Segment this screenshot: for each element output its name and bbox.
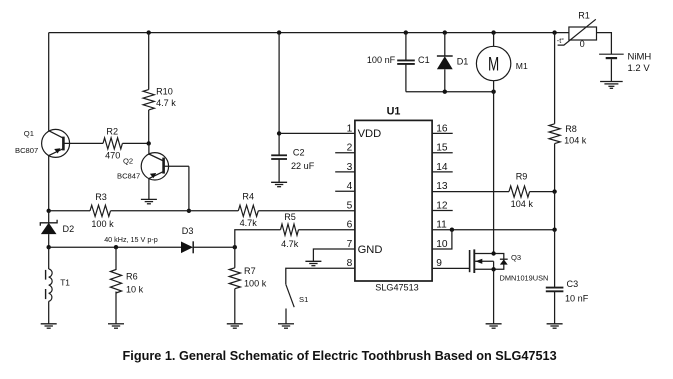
svg-text:9: 9 <box>436 258 442 269</box>
svg-text:6: 6 <box>347 220 353 231</box>
svg-text:Q2: Q2 <box>123 157 133 166</box>
wire pin 8 to switch S1 <box>286 268 355 284</box>
svg-text:C3: C3 <box>567 279 579 289</box>
svg-text:11: 11 <box>436 220 447 231</box>
svg-text:R4: R4 <box>242 192 254 202</box>
wire bottom of C1/D1/M1 <box>406 91 494 93</box>
resistor R6 <box>110 247 121 324</box>
svg-text:C1: C1 <box>418 55 430 65</box>
pin 15 stub <box>432 152 453 154</box>
resistor R8 <box>549 33 560 192</box>
svg-text:4.7k: 4.7k <box>281 239 299 249</box>
svg-text:1.2 V: 1.2 V <box>628 63 651 74</box>
diode D2 zener <box>40 211 57 247</box>
wire pin 9 to Q3 gate <box>432 267 470 269</box>
svg-text:10 k: 10 k <box>126 284 144 294</box>
ground Q2 <box>141 199 157 203</box>
ground S1 <box>278 324 294 328</box>
ground Q3 <box>486 324 502 328</box>
svg-text:S1: S1 <box>299 295 308 304</box>
node junction D3 / R5 / R7 <box>233 245 237 249</box>
svg-text:100 k: 100 k <box>244 279 267 289</box>
resistor R5 <box>281 224 299 235</box>
pin 14 stub <box>432 171 453 173</box>
resistor R7 <box>229 247 240 324</box>
wire R3 to R4 <box>111 210 239 212</box>
svg-text:15: 15 <box>436 143 448 154</box>
svg-text:R7: R7 <box>244 266 256 276</box>
svg-text:GND: GND <box>358 244 383 256</box>
wire pin 10 branch <box>432 230 452 249</box>
svg-text:16: 16 <box>436 123 448 134</box>
svg-text:470: 470 <box>105 150 120 160</box>
battery NiMH 1.2V <box>599 54 624 81</box>
svg-text:R3: R3 <box>95 192 107 202</box>
svg-text:104 k: 104 k <box>511 199 534 209</box>
svg-text:D2: D2 <box>63 224 75 234</box>
diode D3 <box>181 241 235 253</box>
node junction Q3 drain <box>491 251 495 255</box>
svg-text:100 k: 100 k <box>91 219 114 229</box>
thermistor R1 <box>558 19 597 45</box>
svg-text:13: 13 <box>436 181 448 192</box>
ground C2 <box>271 182 287 186</box>
svg-text:M: M <box>488 54 499 75</box>
svg-text:104 k: 104 k <box>564 135 587 145</box>
wire right rail R9 to pin11 row <box>554 192 556 230</box>
wire R9 to right rail <box>530 191 555 193</box>
transistor Q2 <box>141 143 189 210</box>
node junction R6 top <box>114 245 118 249</box>
node junction D2 / 40kHz wire <box>47 245 51 249</box>
svg-text:40 kHz, 15 V p-p: 40 kHz, 15 V p-p <box>104 235 158 244</box>
ground T1 <box>41 324 57 328</box>
svg-text:Figure 1. General Schematic of: Figure 1. General Schematic of Electric … <box>123 349 557 363</box>
svg-text:22 uF: 22 uF <box>291 161 315 171</box>
node junction R2/R10/Q2 <box>147 141 151 145</box>
svg-text:-t°: -t° <box>557 36 564 45</box>
ground pin 7 GND <box>305 261 321 265</box>
node junction D1 top <box>443 30 447 34</box>
svg-text:Q1: Q1 <box>24 129 34 138</box>
pin 3 stub <box>335 171 355 173</box>
ground C3 <box>547 324 563 328</box>
pin 4 stub <box>335 190 355 192</box>
wire Q3 source to ground <box>493 269 495 324</box>
node junction R9 / right rail <box>552 189 556 193</box>
wire R1 to battery <box>597 33 612 54</box>
diode D1 <box>437 33 453 92</box>
svg-text:10 nF: 10 nF <box>565 294 589 304</box>
svg-text:0: 0 <box>580 39 585 49</box>
node junction left rail R3 <box>47 209 51 213</box>
svg-text:VDD: VDD <box>358 128 382 140</box>
svg-text:U1: U1 <box>387 106 401 118</box>
svg-text:R9: R9 <box>516 172 528 182</box>
node junction M1 top <box>491 30 495 34</box>
transistor Q1 <box>42 129 103 157</box>
svg-text:10: 10 <box>436 239 448 250</box>
svg-text:D3: D3 <box>182 226 194 236</box>
pin 2 stub <box>335 152 355 154</box>
svg-text:14: 14 <box>436 162 448 173</box>
wire pin 13 to R9 <box>432 191 509 193</box>
wire left rail Q1 emitter to R3 node <box>48 156 50 211</box>
svg-text:2: 2 <box>347 143 353 154</box>
svg-text:BC807: BC807 <box>15 146 38 155</box>
capacitor C3 <box>546 288 564 324</box>
svg-text:8: 8 <box>347 258 353 269</box>
svg-text:4.7k: 4.7k <box>240 218 258 228</box>
wire Q2 emitter to ground <box>148 179 150 200</box>
svg-text:D1: D1 <box>457 56 469 66</box>
node junction Q3 source <box>491 267 495 271</box>
pin 12 stub <box>432 210 453 212</box>
wire left rail top segment <box>48 33 50 131</box>
capacitor C2 <box>271 33 287 183</box>
svg-text:DMN1019USN: DMN1019USN <box>500 273 549 282</box>
svg-text:7: 7 <box>347 239 353 250</box>
node junction C2 / pin1 wire <box>277 131 281 135</box>
resistor R10 <box>143 33 154 144</box>
resistor R9 <box>509 186 530 197</box>
node junction Q2 base / R3-R4 wire <box>187 209 191 213</box>
svg-text:R6: R6 <box>126 272 138 282</box>
svg-text:SLG47513: SLG47513 <box>375 283 418 293</box>
node junction D1 bottom <box>443 90 447 94</box>
svg-text:BC847: BC847 <box>117 171 140 180</box>
switch S1 <box>286 284 294 324</box>
capacitor C1 <box>397 33 415 92</box>
op-amp U1 IC body SLG47513 <box>355 120 432 281</box>
resistor R2 <box>103 138 122 149</box>
wire R2 right lead <box>122 142 148 144</box>
svg-text:M1: M1 <box>516 61 528 71</box>
wire R5 to pin 6 <box>299 229 355 231</box>
svg-text:4.7 k: 4.7 k <box>156 98 176 108</box>
ground R7 <box>227 324 243 328</box>
ground battery <box>600 82 623 89</box>
pin 16 stub <box>432 132 453 134</box>
svg-text:12: 12 <box>436 200 448 211</box>
svg-text:R2: R2 <box>106 126 118 136</box>
wire R5 riser and lead to pin 6 <box>235 230 281 248</box>
svg-text:100 nF: 100 nF <box>367 55 396 65</box>
svg-text:Q3: Q3 <box>511 253 521 262</box>
wire pin 1 VDD <box>279 132 355 134</box>
wire M1 bottom to Q3 drain <box>493 92 495 254</box>
wire right rail pin11 row to C3 <box>554 230 556 288</box>
wire pin 7 to ground <box>313 249 355 261</box>
svg-text:4: 4 <box>347 181 353 192</box>
svg-text:NiMH: NiMH <box>628 51 652 62</box>
inductor T1 <box>46 247 53 324</box>
svg-text:C2: C2 <box>293 148 305 158</box>
node junction pin 11 / pin 10 branch <box>450 228 454 232</box>
node junction right rail top <box>552 30 556 34</box>
wire top rail VDD <box>49 32 569 34</box>
resistor R3 <box>90 205 111 216</box>
svg-text:T1: T1 <box>60 277 70 287</box>
svg-text:3: 3 <box>347 162 353 173</box>
resistor R4 <box>238 205 258 216</box>
node junction M1 bottom <box>491 90 495 94</box>
motor M1 <box>476 33 510 92</box>
svg-text:R5: R5 <box>284 212 296 222</box>
node junction R10 top <box>147 30 151 34</box>
svg-text:5: 5 <box>347 201 353 212</box>
svg-text:R10: R10 <box>156 87 173 97</box>
svg-text:R8: R8 <box>565 124 577 134</box>
node junction C1 top <box>404 30 408 34</box>
svg-text:R1: R1 <box>578 11 590 21</box>
node junction pin11 wire / right rail <box>552 228 556 232</box>
svg-text:1: 1 <box>347 123 353 134</box>
transistor Q3 MOSFET <box>470 249 508 273</box>
node junction C2 top <box>277 30 281 34</box>
ground R6 <box>108 324 124 328</box>
wire pin 11 to right rail <box>432 229 554 231</box>
wire R4 to pin 5 <box>258 210 355 212</box>
wire 40kHz node to D3 <box>49 246 182 248</box>
wire R3 left lead <box>49 210 90 212</box>
